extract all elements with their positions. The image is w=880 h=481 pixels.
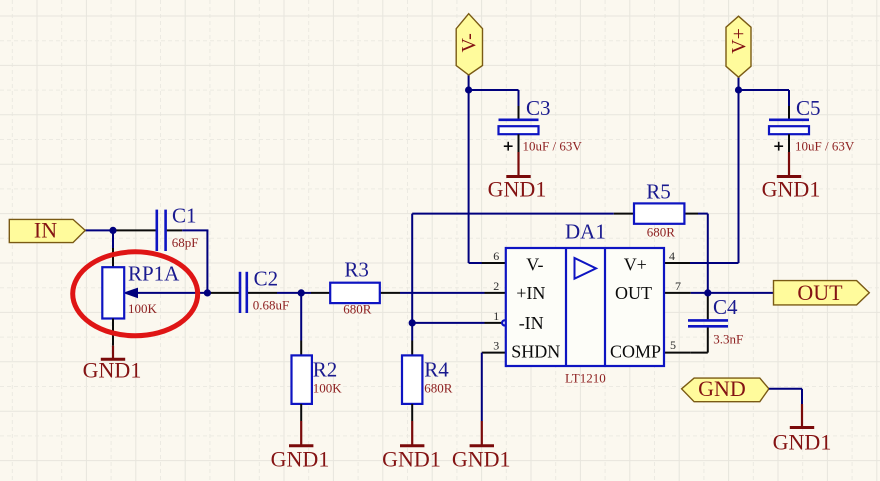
svg-text:C3: C3 [526, 96, 551, 120]
svg-text:OUT: OUT [797, 280, 843, 305]
svg-text:680R: 680R [424, 381, 453, 396]
svg-text:R5: R5 [646, 180, 671, 204]
svg-text:GND1: GND1 [452, 447, 511, 472]
svg-text:C2: C2 [254, 267, 279, 291]
svg-text:100K: 100K [313, 381, 343, 396]
svg-text:DA1: DA1 [565, 220, 606, 244]
svg-text:R4: R4 [424, 358, 449, 382]
svg-text:V+: V+ [728, 28, 750, 54]
svg-text:10uF / 63V: 10uF / 63V [523, 138, 583, 153]
svg-text:GND1: GND1 [773, 429, 832, 454]
svg-text:COMP: COMP [610, 342, 661, 362]
svg-text:+IN: +IN [516, 283, 545, 303]
svg-text:R2: R2 [313, 358, 338, 382]
svg-text:LT1210: LT1210 [565, 371, 606, 386]
svg-text:680R: 680R [647, 225, 676, 240]
svg-text:C5: C5 [796, 96, 821, 120]
svg-text:IN: IN [34, 217, 57, 242]
svg-text:RP1A: RP1A [128, 261, 180, 285]
svg-text:0.68uF: 0.68uF [253, 298, 289, 313]
svg-text:C4: C4 [713, 295, 738, 319]
svg-text:6: 6 [493, 249, 499, 263]
svg-text:7: 7 [675, 279, 681, 293]
svg-text:3: 3 [493, 339, 499, 353]
svg-text:V+: V+ [624, 254, 647, 274]
svg-text:C1: C1 [172, 204, 197, 228]
svg-text:R3: R3 [344, 257, 369, 281]
svg-text:2: 2 [493, 279, 499, 293]
svg-text:GND: GND [698, 376, 746, 401]
svg-text:GND1: GND1 [488, 176, 547, 201]
svg-text:1: 1 [493, 309, 499, 323]
svg-text:GND1: GND1 [762, 176, 821, 201]
svg-text:680R: 680R [343, 301, 372, 316]
svg-text:OUT: OUT [615, 283, 652, 303]
svg-text:V-: V- [526, 254, 543, 274]
svg-text:68pF: 68pF [172, 235, 199, 250]
svg-text:10uF / 63V: 10uF / 63V [795, 138, 855, 153]
svg-text:V-: V- [458, 33, 480, 52]
svg-text:-IN: -IN [519, 313, 544, 333]
svg-text:3.3nF: 3.3nF [713, 332, 743, 347]
svg-text:GND1: GND1 [382, 447, 441, 472]
svg-text:SHDN: SHDN [511, 342, 560, 362]
svg-text:4: 4 [669, 249, 675, 263]
svg-text:5: 5 [670, 338, 676, 352]
svg-text:100K: 100K [128, 301, 158, 316]
svg-text:GND1: GND1 [83, 358, 142, 383]
svg-text:GND1: GND1 [271, 447, 330, 472]
